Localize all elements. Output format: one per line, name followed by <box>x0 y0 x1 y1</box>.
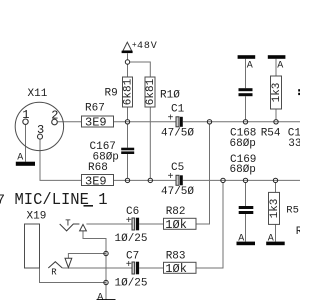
svg-text:R9: R9 <box>105 88 118 100</box>
svg-text:R5: R5 <box>286 204 299 216</box>
svg-text:+: + <box>126 260 132 271</box>
svg-text:A: A <box>268 233 274 244</box>
wire ring line to C7 <box>62 267 132 269</box>
svg-text:1Øk: 1Øk <box>165 218 187 232</box>
wire C1 to right edge (rail1) <box>183 121 300 123</box>
svg-text:R: R <box>296 226 300 238</box>
connector X11 body <box>15 102 63 150</box>
svg-text:+: + <box>168 114 174 125</box>
X19 ring contact R <box>48 262 62 268</box>
svg-text:3: 3 <box>37 123 44 137</box>
node bus/sleeve <box>104 280 108 284</box>
X19 tip contact T <box>60 224 80 231</box>
svg-text:47/5Ø: 47/5Ø <box>161 186 194 198</box>
wire C5 to right edge (rail2) <box>183 179 300 181</box>
node at +48V <box>125 60 129 64</box>
svg-text:X11: X11 <box>28 88 48 100</box>
svg-text:68Øp: 68Øp <box>230 138 256 150</box>
svg-text:7: 7 <box>0 193 5 209</box>
node rail2/C167 <box>125 178 129 182</box>
wire X11 pin3 down <box>40 139 82 180</box>
svg-text:X19: X19 <box>27 210 47 222</box>
svg-text:R82: R82 <box>166 206 186 218</box>
resistor R54 <box>271 76 282 109</box>
node rail2/R83 branch <box>221 178 225 182</box>
node rail2/R10 <box>148 178 152 182</box>
node rail1/R82 branch <box>207 120 211 124</box>
wire node to R9 top <box>127 64 129 77</box>
wire rail2 down to R83 <box>196 182 223 268</box>
X11 pin 2 <box>52 119 58 125</box>
capacitor C168 <box>239 88 253 91</box>
wire rail1 down to R82 <box>196 124 210 224</box>
svg-text:2: 2 <box>51 108 58 122</box>
svg-text:1Øk: 1Øk <box>165 262 187 276</box>
wire R55 branch <box>275 182 277 192</box>
X19 tip switch triangle <box>80 224 87 231</box>
svg-text:R68: R68 <box>88 162 108 174</box>
resistor R9 <box>123 77 133 107</box>
ground at X11 pin1 <box>16 162 35 166</box>
+48V supply symbol <box>123 42 132 51</box>
svg-text:3E9: 3E9 <box>85 116 107 130</box>
node bus/ring switch <box>104 251 108 255</box>
svg-text:68Øp: 68Øp <box>230 164 256 176</box>
capacitor C169 <box>239 206 254 209</box>
cut-off component at right edge <box>298 89 300 91</box>
wire X11 pin1 to ground <box>25 124 27 161</box>
wire X11 pin2 to R67 <box>57 121 81 123</box>
resistor R83 <box>164 262 197 273</box>
svg-text:1: 1 <box>22 108 29 122</box>
svg-text:MIC/LINE 1: MIC/LINE 1 <box>15 191 108 210</box>
ground below C169 <box>237 242 256 246</box>
svg-text:+: + <box>168 172 174 183</box>
wire tip switch to bus <box>83 231 106 300</box>
wire sleeve to bus <box>40 268 107 283</box>
resistor R10 <box>145 77 155 107</box>
X11 pin 1 <box>23 119 28 124</box>
wire C7 to R83 <box>139 267 163 269</box>
svg-text:33: 33 <box>288 138 300 150</box>
svg-text:T: T <box>65 218 71 228</box>
resistor R82 <box>164 218 197 229</box>
wire R67 to C1 (rail1) <box>114 121 177 123</box>
svg-text:R83: R83 <box>166 251 186 263</box>
connector X19 body <box>25 224 40 268</box>
svg-text:A: A <box>17 152 23 163</box>
wire R10 bottom to rail2 node <box>149 107 151 178</box>
svg-text:1Ø/25: 1Ø/25 <box>115 233 148 245</box>
ground above R54 <box>268 55 286 59</box>
svg-text:48V: 48V <box>137 41 158 52</box>
svg-text:3E9: 3E9 <box>85 174 107 188</box>
svg-text:R1Ø: R1Ø <box>160 90 180 102</box>
wire tip line to C6 <box>86 223 132 225</box>
resistor R55 <box>269 192 280 224</box>
wire R68 to C5 (rail2) <box>114 179 177 181</box>
svg-text:R: R <box>51 267 57 277</box>
wire R9 bottom to rail1 <box>127 107 129 119</box>
wire node to R10 top <box>130 62 151 77</box>
resistor R67 <box>82 116 114 127</box>
wire C167 branch <box>127 124 129 148</box>
node rail2/R55 <box>273 178 277 182</box>
X19 ring switch triangle <box>65 258 72 267</box>
node rail1/R9/C167 <box>125 120 129 124</box>
wire C168 branch <box>245 59 247 88</box>
capacitor C167 <box>121 148 134 151</box>
svg-text:47/5Ø: 47/5Ø <box>161 128 194 140</box>
svg-text:R67: R67 <box>85 103 105 115</box>
svg-text:1k3: 1k3 <box>269 199 281 219</box>
svg-text:A: A <box>238 233 244 244</box>
wire ring switch to bus <box>68 254 106 259</box>
svg-text:1k3: 1k3 <box>271 83 283 103</box>
svg-text:A: A <box>277 61 283 72</box>
wire C6 to R82 <box>139 223 163 225</box>
wire +48V stem <box>127 53 129 60</box>
node rail2/C169 <box>243 178 247 182</box>
node rail1/C168 <box>243 120 247 124</box>
wire C169 branch <box>245 182 247 206</box>
svg-text:1Ø/25: 1Ø/25 <box>115 278 148 290</box>
resistor R68 <box>82 175 114 186</box>
svg-text:+: + <box>126 216 132 227</box>
svg-text:6k81: 6k81 <box>123 78 135 105</box>
ground below R55 <box>266 242 285 246</box>
ground above C168 <box>238 55 256 59</box>
node rail1/R54 <box>274 120 278 124</box>
X11 pin 3 <box>38 134 43 139</box>
svg-text:A: A <box>247 61 253 72</box>
svg-text:A: A <box>97 292 103 300</box>
wire R54 branch <box>275 59 277 76</box>
svg-text:6k81: 6k81 <box>145 78 157 105</box>
svg-text:R54: R54 <box>261 128 281 140</box>
